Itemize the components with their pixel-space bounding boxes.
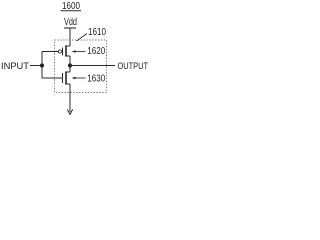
dashed box 1610 [55, 40, 107, 93]
wire to NMOS gate [42, 77, 63, 79]
wire to PMOS gate [42, 51, 58, 53]
wire INPUT to gate bus [30, 65, 42, 67]
Vdd power symbol [64, 27, 76, 29]
transistor 1630 (NMOS) [63, 72, 71, 85]
leader arrow to 1630 [72, 77, 86, 80]
transistor 1620 (PMOS) [58, 46, 70, 57]
leader arrow to 1620 [72, 50, 86, 53]
svg-text:OUTPUT: OUTPUT [118, 61, 149, 72]
svg-text:1630: 1630 [87, 73, 105, 84]
wire output node to NMOS drain [69, 65, 71, 72]
wire output [70, 65, 115, 67]
wire Vdd to PMOS source [69, 28, 71, 46]
leader line to 1610 [77, 34, 88, 42]
node output junction [68, 63, 72, 67]
figure number 1600 [61, 1, 82, 12]
svg-text:INPUT: INPUT [1, 61, 29, 72]
node input junction [40, 63, 44, 67]
wire PMOS drain to output node [69, 56, 71, 66]
wire NMOS source to ground [69, 84, 71, 112]
svg-text:Vdd: Vdd [64, 17, 77, 28]
ground arrow [67, 109, 72, 114]
svg-text:1620: 1620 [87, 46, 105, 57]
svg-text:1610: 1610 [88, 27, 106, 38]
gate bus wire [41, 52, 43, 79]
